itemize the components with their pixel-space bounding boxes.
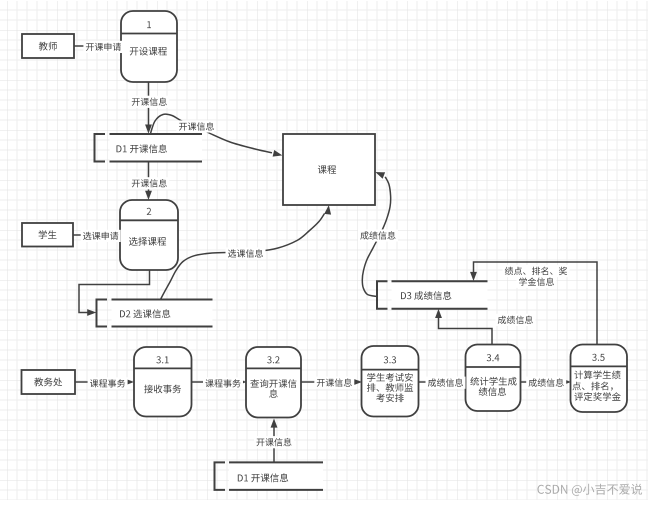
data store D1 开课信息 (top) xyxy=(95,134,203,162)
process 3.1 接收事务 xyxy=(134,347,192,417)
flow 教师→开设课程 开课申请 xyxy=(74,41,123,53)
flow 选择课程→D2 (orthogonal) xyxy=(79,270,150,316)
flow D1→选择课程 开课信息 xyxy=(129,162,169,200)
flow 3.1→3.2 课程事务 xyxy=(192,377,246,389)
process 2 选择课程 xyxy=(120,200,178,270)
flow D3→课程 成绩信息 (curved) xyxy=(358,172,398,296)
flow D1→课程 开课信息 (curved) xyxy=(151,114,282,156)
process 3.4 统计学生成绩信息 xyxy=(466,345,521,412)
flow 计算学生绩点→D3 绩点、排名、奖学金信息 xyxy=(471,262,598,345)
flow 3.3→3.4 成绩信息 xyxy=(419,377,466,389)
external entity 教师 xyxy=(22,34,74,58)
external entity 教务处 xyxy=(22,370,76,394)
data store D3 成绩信息 xyxy=(377,281,488,309)
process/store 课程 xyxy=(283,134,375,205)
flow D2→课程 选课信息 (curved) xyxy=(161,206,331,300)
flow 学生→选择课程 选课申请 xyxy=(73,230,121,242)
flow 教务处→3.1 课程事务 xyxy=(75,377,133,389)
data store D1 开课信息 (bottom) xyxy=(215,462,324,490)
flow 统计学生成绩信息→D3 成绩信息 xyxy=(436,310,536,345)
watermark CSDN @小吉不爱说 xyxy=(538,484,643,496)
data store D2 选课信息 xyxy=(97,300,213,327)
process 1 开设课程 xyxy=(121,11,177,82)
flow 开设课程→D1 开课信息 xyxy=(129,82,169,133)
flow 3.2→3.3 开课信息 xyxy=(301,377,361,389)
process 3.2 查询开课信息 xyxy=(246,347,301,418)
process 3.3 学生考试安排、教师监考安排 xyxy=(362,346,419,417)
process 3.5 计算学生绩点、排名，评定奖学金 xyxy=(571,345,628,413)
flow D1(bottom)→3.2 开课信息 xyxy=(254,419,294,462)
flow 3.4→3.5 成绩信息 xyxy=(521,377,571,389)
external entity 学生 xyxy=(22,223,73,247)
